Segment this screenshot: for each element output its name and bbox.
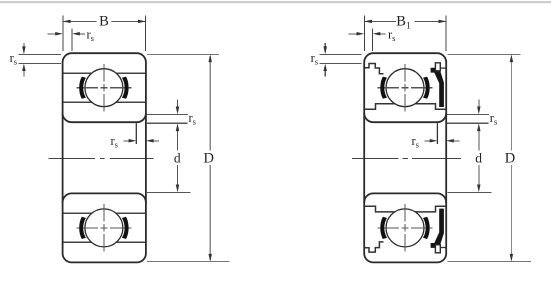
rs left up arrow (23, 70, 25, 77)
rs mid extension line upper (447, 113, 489, 115)
d arrow down (477, 185, 481, 193)
svg-text:d: d (174, 150, 181, 165)
dimension B1 line (365, 20, 446, 22)
rs mid down arrow (478, 100, 480, 107)
rs mid extension line upper (147, 113, 188, 115)
dimension B extension line left (62, 16, 64, 52)
D extension line top (447, 53, 520, 55)
side silhouette connector left (363, 113, 365, 203)
dimension D line (510, 56, 512, 260)
side silhouette connector right (145, 113, 147, 203)
left bearing bottom section (mirrored) (63, 193, 146, 262)
chamfer extension line top (71, 29, 73, 52)
rs chamfer tick line (135, 123, 137, 144)
svg-text:B: B (99, 14, 109, 30)
svg-text:rs: rs (189, 111, 196, 127)
dimension B line (64, 20, 146, 22)
rs top arrow left (48, 33, 57, 35)
dimension d line with arrows (478, 130, 480, 186)
svg-text:d: d (475, 150, 482, 165)
rs left down arrow (23, 43, 25, 48)
rs top arrow left (349, 33, 358, 35)
rs chamfer arrow left-pointing (153, 140, 160, 142)
D extension line bottom (447, 261, 531, 263)
d arrow up (176, 123, 180, 131)
B arrow right (138, 20, 146, 24)
d bottom reference line (147, 191, 190, 193)
svg-text:rs: rs (87, 27, 94, 43)
left bearing top section (63, 53, 146, 122)
d arrow down (176, 185, 180, 193)
D arrow top (510, 54, 514, 62)
side silhouette connector right (445, 113, 447, 203)
rs mid extension line lower (147, 122, 188, 124)
side silhouette connector left (62, 113, 64, 203)
rs chamfer arrow right-pointing (124, 140, 130, 142)
svg-text:rs: rs (111, 134, 118, 150)
D arrow bottom (510, 254, 514, 262)
svg-text:D: D (204, 150, 214, 166)
rs mid down arrow (177, 100, 179, 107)
D arrow top (208, 54, 212, 62)
B1 arrow right (439, 20, 447, 24)
rs left up arrow (324, 70, 326, 77)
axis centerline (right bearing) (352, 157, 461, 159)
svg-text:rs: rs (412, 134, 419, 150)
svg-text:rs: rs (388, 27, 395, 43)
rs chamfer tick line (436, 123, 438, 144)
rs left extension line lower (320, 62, 362, 64)
chamfer extension line top (372, 29, 374, 52)
d arrow up (477, 123, 481, 131)
rs left extension line lower (19, 62, 61, 64)
rs chamfer arrow left-pointing (453, 140, 460, 142)
rs left extension line upper (320, 53, 362, 55)
top border rule (0, 1, 551, 3)
axis centerline (left bearing) (49, 157, 154, 159)
B arrow left (63, 20, 71, 24)
rs top arrow right (79, 33, 86, 35)
svg-text:B1: B1 (396, 14, 411, 32)
rs chamfer arrow right-pointing (425, 140, 431, 142)
D extension line bottom (147, 261, 230, 263)
D arrow bottom (208, 254, 212, 262)
svg-text:rs: rs (311, 51, 318, 67)
rs top arrow right (379, 33, 386, 35)
right bearing bottom section (mirrored) (364, 193, 446, 262)
rs left extension line upper (19, 53, 61, 55)
svg-text:D: D (505, 150, 515, 166)
D extension line top (147, 53, 219, 55)
rs left down arrow (324, 43, 326, 48)
dimension B1 extension line right (445, 16, 447, 52)
dimension D line (209, 56, 211, 260)
rs mid extension line lower (447, 122, 488, 124)
dimension B extension line right (145, 16, 147, 52)
d bottom reference line (447, 191, 491, 193)
svg-text:rs: rs (490, 111, 497, 127)
B1 arrow left (364, 20, 372, 24)
dimension d line with arrows (177, 130, 179, 186)
right bearing top section (364, 53, 446, 122)
dimension B1 extension line left (363, 16, 365, 52)
svg-text:rs: rs (10, 51, 17, 67)
